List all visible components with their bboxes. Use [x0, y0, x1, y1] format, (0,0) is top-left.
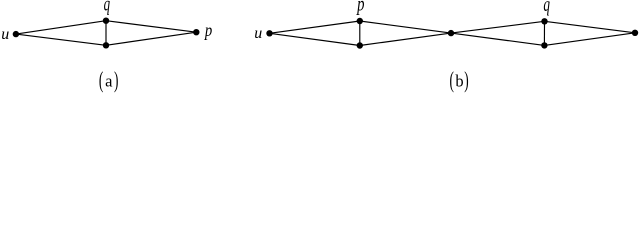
svg-text:a: a — [105, 72, 113, 91]
svg-text:p: p — [204, 19, 212, 40]
svg-text:u: u — [254, 25, 262, 42]
svg-text:q: q — [104, 0, 111, 16]
svg-text:): ) — [464, 68, 468, 94]
svg-text:): ) — [114, 68, 118, 94]
svg-text:p: p — [355, 0, 364, 15]
svg-text:(: ( — [99, 68, 103, 94]
svg-text:u: u — [1, 26, 9, 43]
svg-text:q: q — [543, 0, 550, 16]
svg-text:b: b — [455, 72, 463, 91]
svg-text:(: ( — [450, 68, 454, 94]
